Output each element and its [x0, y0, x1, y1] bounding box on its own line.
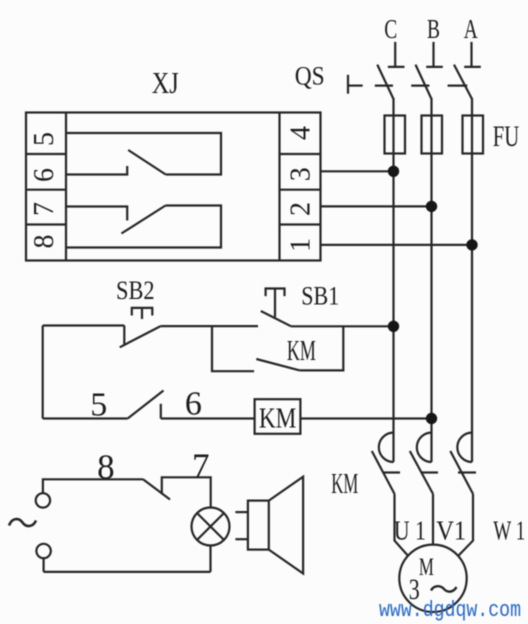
svg-text:QS: QS	[295, 62, 325, 91]
switch blade contact 8	[143, 479, 170, 499]
fuse FU phase A	[463, 116, 484, 154]
contact 7 fixed bracket	[162, 477, 211, 507]
speaker box	[248, 501, 269, 550]
speaker terminal top	[235, 511, 248, 513]
svg-text:www.dgdqw.com: www.dgdqw.com	[379, 598, 521, 623]
svg-text:SB2: SB2	[116, 276, 155, 305]
svg-text:XJ: XJ	[152, 65, 179, 100]
svg-text:7: 7	[29, 202, 60, 216]
wire blade A to fuse	[471, 98, 473, 116]
svg-text:3: 3	[286, 167, 317, 181]
svg-text:7: 7	[192, 447, 210, 486]
wire W phase to motor	[458, 494, 473, 556]
AC tilde symbol	[9, 519, 36, 526]
wire KM coil to phase B	[300, 417, 431, 419]
svg-text:FU: FU	[493, 120, 520, 153]
svg-text:KM: KM	[331, 468, 358, 500]
XJ remote contact fixed tick	[160, 404, 162, 419]
wire SB1 to phase C	[291, 325, 393, 327]
XJ left cell line 5/6	[26, 153, 66, 155]
lamp cross stroke 2	[197, 513, 224, 540]
XJ remote contact blade (5-6)	[128, 391, 164, 419]
XJ internal contact 5-6 wiring	[66, 133, 221, 175]
AC source top terminal wire	[43, 479, 143, 492]
XJ left terminal column divider	[65, 113, 67, 261]
svg-text:5: 5	[29, 132, 60, 146]
motor M circle	[399, 545, 466, 612]
KM main contact blade B	[410, 451, 433, 494]
KM main contact arc B	[417, 433, 432, 462]
phase A vertical wire	[471, 116, 473, 463]
motor 3-phase tilde	[431, 586, 457, 591]
phase B supply stub	[432, 42, 434, 67]
bottom return wire	[44, 571, 211, 573]
svg-text:6: 6	[185, 386, 202, 423]
KM main contact blade A	[450, 451, 473, 494]
XJ contact 5-6 blade	[128, 150, 166, 175]
fuse FU phase C	[385, 116, 406, 154]
phase C vertical wire	[392, 116, 394, 463]
phase B fixed contact bar	[426, 66, 443, 68]
source top terminal circle	[36, 493, 50, 507]
pushbutton SB2 cap	[132, 308, 153, 316]
junction node phase C / terminal 3	[388, 166, 399, 177]
svg-text:A: A	[464, 14, 478, 44]
wire terminal1 to phase A	[321, 244, 473, 246]
wire rail to XJ contact 5	[43, 417, 128, 419]
svg-text:2: 2	[286, 202, 317, 216]
KM linkage dashed line	[383, 471, 400, 473]
pushbutton SB2 plunger	[141, 308, 143, 319]
phase C fixed contact bar	[388, 66, 405, 68]
wire blade B to fuse	[430, 98, 432, 116]
phase C supply stub	[394, 42, 396, 67]
XJ right cell line 3/2	[280, 189, 321, 191]
junction node coil to phase B	[426, 413, 437, 424]
KM main contact blade C	[372, 451, 395, 494]
KM auxiliary contact blade	[256, 359, 300, 370]
XJ contact 7-8 return wiring	[66, 206, 221, 248]
svg-text:M: M	[419, 554, 434, 581]
fuse FU phase B	[422, 116, 443, 154]
wire terminal2 to phase B	[321, 205, 432, 207]
pushbutton SB1 plunger	[274, 289, 276, 318]
relay XJ outer box	[26, 113, 321, 261]
svg-text:B: B	[427, 14, 440, 44]
svg-text:6: 6	[29, 168, 60, 182]
switch QS blade B	[416, 65, 432, 99]
wire contact 6 to KM coil	[161, 417, 255, 419]
XJ right cell line 2/1	[280, 223, 321, 225]
wire U phase to motor	[395, 494, 409, 556]
switch QS blade C	[377, 65, 393, 99]
contactor coil KM box	[255, 399, 301, 434]
lamp cross stroke 1	[197, 513, 224, 540]
XJ right terminal column divider	[278, 113, 280, 261]
wire blade C to fuse	[392, 98, 394, 116]
source bottom terminal circle	[36, 544, 50, 558]
KM main contact arc C	[379, 433, 394, 462]
XJ internal contact 7-8 wiring	[66, 207, 127, 221]
junction node control tap on phase C	[388, 321, 399, 332]
svg-text:8: 8	[97, 448, 115, 487]
junction node phase B / terminal 2	[426, 201, 437, 212]
svg-text:V1: V1	[436, 516, 466, 546]
svg-text:5: 5	[90, 387, 107, 424]
pushbutton SB1 cap	[266, 289, 285, 297]
junction node phase A / terminal 1	[466, 239, 477, 250]
SB2 blade	[120, 326, 161, 347]
svg-text:U 1: U 1	[394, 516, 426, 546]
control left rail	[42, 326, 44, 419]
wire SB2 to SB1	[161, 325, 258, 327]
svg-text:KM: KM	[287, 336, 316, 367]
XJ right cell line 4/3	[280, 153, 321, 155]
phase A fixed contact bar	[464, 66, 481, 68]
phase A supply stub	[470, 42, 472, 67]
svg-text:1: 1	[286, 238, 317, 252]
lamp circle	[192, 508, 230, 546]
svg-text:C: C	[384, 14, 397, 44]
KM auxiliary contact branch left drop	[212, 326, 254, 371]
XJ contact 5-6 fixed hook	[66, 166, 127, 175]
switch QS linkage dashed line	[375, 84, 393, 86]
wire V phase to motor	[432, 494, 434, 545]
SB1 blade	[261, 311, 291, 326]
KM auxiliary branch right riser	[300, 326, 344, 370]
svg-text:SB1: SB1	[301, 282, 339, 311]
speaker terminal bottom	[235, 538, 248, 540]
XJ left cell line 6/7	[26, 189, 66, 191]
switch QS handle	[347, 75, 349, 94]
wire left rail to SB2	[43, 324, 125, 326]
source bottom terminal wire	[42, 558, 44, 572]
KM main contact arc A	[457, 433, 472, 462]
XJ contact 7-8 blade	[121, 206, 165, 234]
svg-text:4: 4	[286, 126, 317, 140]
XJ left cell line 7/8	[26, 223, 66, 225]
lamp bottom wire	[209, 546, 211, 572]
wire terminal3 to phase C	[321, 170, 394, 172]
phase B vertical wire	[430, 116, 432, 463]
svg-text:KM: KM	[259, 404, 297, 435]
switch QS blade A	[454, 65, 472, 99]
speaker horn	[269, 477, 303, 574]
svg-text:W 1: W 1	[493, 516, 525, 546]
svg-text:8: 8	[29, 235, 60, 249]
SB2 fixed contact tick	[123, 326, 125, 346]
